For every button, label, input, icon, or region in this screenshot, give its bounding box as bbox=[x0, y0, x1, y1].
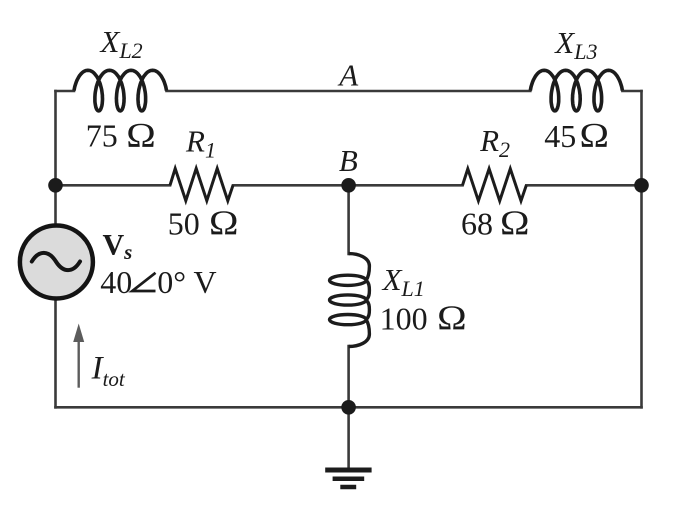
svg-text:Ω: Ω bbox=[209, 203, 239, 242]
svg-text:0° V: 0° V bbox=[157, 264, 216, 300]
svg-text:Ω: Ω bbox=[126, 116, 156, 155]
svg-text:75: 75 bbox=[86, 117, 118, 153]
svg-text:40: 40 bbox=[100, 264, 132, 300]
svg-text:45: 45 bbox=[544, 118, 576, 154]
svg-text:Ω: Ω bbox=[437, 299, 467, 338]
svg-text:B: B bbox=[339, 143, 358, 178]
svg-text:100: 100 bbox=[380, 301, 428, 337]
svg-text:68: 68 bbox=[461, 205, 493, 241]
svg-text:Ω: Ω bbox=[580, 116, 610, 155]
svg-text:A: A bbox=[337, 58, 359, 93]
svg-text:50: 50 bbox=[168, 205, 200, 241]
svg-text:Ω: Ω bbox=[500, 203, 530, 242]
